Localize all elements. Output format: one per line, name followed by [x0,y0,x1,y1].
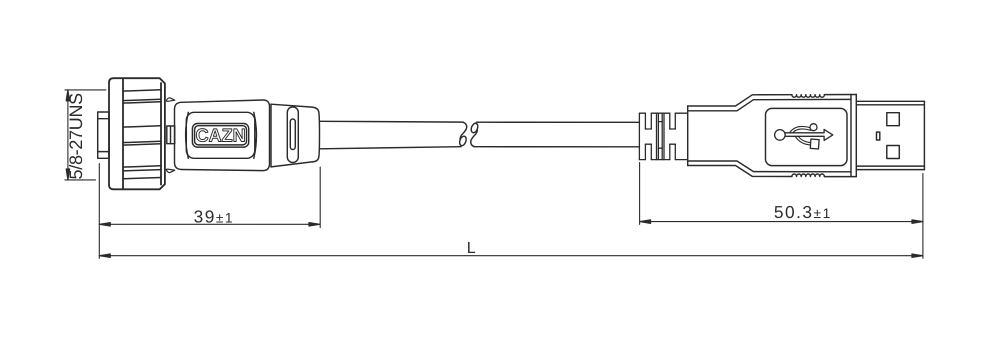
cable left segment [320,121,463,149]
grip serrations bottom [792,174,824,177]
dimension 50.3±1 [640,220,923,224]
cable break squiggle right [470,122,479,146]
bottom bayonet fin [166,169,175,173]
cable break squiggle left [458,122,467,146]
latch button [167,126,175,144]
svg-text:CAZN: CAZN [196,124,246,145]
body left silhouette arc [186,112,189,158]
svg-text:50.3±1: 50.3±1 [774,202,832,222]
shell bottom window [887,146,900,159]
strain relief bellows [639,113,687,159]
body right silhouette arc [254,112,257,158]
grip serrations top [792,95,824,98]
connector body [175,100,270,171]
dimension 39±1 [99,223,320,227]
svg-text:5/8-27UNS: 5/8-27UNS [66,93,86,180]
nut knurl grooves [123,90,161,179]
thread barrel [98,112,109,158]
shell top window [887,113,900,126]
USB logo plate [766,108,848,165]
CAZN badge border [192,124,248,148]
seal ring capsule [287,107,298,163]
dimension 5/8-27UNS vertical [66,90,70,180]
dimension L [99,254,923,258]
rear gland section [271,104,320,167]
shell small slot [877,132,880,140]
coupling nut [109,78,165,189]
USB metal shell [856,101,924,169]
svg-text:L: L [467,240,476,257]
USB overmold body [688,95,857,177]
dimension extension lines [65,90,923,258]
USB trident icon [775,124,833,149]
top bayonet fin [166,98,175,102]
cable right segment [474,122,639,147]
svg-text:39±1: 39±1 [194,206,234,226]
label plate [186,112,255,158]
